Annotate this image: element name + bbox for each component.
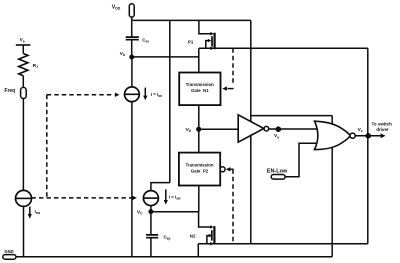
pin Freq oval [21,87,27,98]
label arrow I=Ion [143,88,162,101]
svg-text:To switch: To switch [372,121,393,126]
wire Va to resistor [22,45,24,54]
capacitor C_sp [146,235,158,238]
wire P2 bottom to Vc line [198,186,200,212]
wire P1 drain line [199,47,368,49]
svg-text:GND: GND [4,249,13,254]
wire Vo [269,128,317,130]
wire Freq down to I_sw mirror [22,99,24,191]
wire EN-Low to NOR input [285,143,318,177]
svg-text:P1: P1 [188,39,194,44]
wire V_D to inverter [199,128,239,130]
wire rail to C_se [131,20,133,37]
transmission gate P2 box [179,153,220,186]
capacitor C_se [126,37,139,40]
pin EN-Low oval [271,175,285,180]
svg-text:VDD: VDD [112,4,121,10]
bubble inverter output [264,126,269,131]
svg-text:Vo: Vo [274,133,279,139]
wire Vb horizontal [132,56,199,58]
svg-text:Va: Va [20,37,25,43]
arrow to switch driver [381,133,386,138]
svg-text:Vx: Vx [358,127,363,133]
svg-text:Csp: Csp [164,235,171,241]
wire I_on source down to GND rail [131,102,133,257]
current source I_sw mirror circle [16,190,32,206]
wire rail down at x=169.8 [169,20,171,182]
wire I_sw mirror to GND rail [23,206,25,256]
wire branch to NOR top [251,115,332,117]
wire C_se to Vb [131,40,133,57]
node Vx junction dot [365,133,371,139]
wire P1 drain down to N1 input [198,48,200,72]
svg-text:I = Ion: I = Ion [151,92,162,98]
svg-text:N2: N2 [190,234,196,239]
transmission gate N1 box [179,73,220,106]
wire right vertical Vx column [367,48,369,243]
svg-text:I = Isw: I = Isw [169,194,181,200]
node V_D junction dot [196,127,201,132]
dashed control from bottom line to P2 bubble [226,167,234,244]
transistor N2 [199,212,215,246]
wire rail x=250.8 from VDD rail down [250,20,252,243]
label arrow I_sw [28,207,41,219]
svg-text:RJ: RJ [33,63,38,69]
current source I=Isw circle [143,191,158,206]
wire Vb column down to current source I_on [131,57,133,87]
dashed feedback to I_on [47,93,120,97]
node Vc junction dot [148,209,153,214]
wire resistor to Freq pin [22,76,24,88]
svg-text:Gate P2: Gate P2 [191,168,209,173]
wire GND rail [16,256,332,258]
gate NOR U2 [315,121,351,149]
resistor RJ zigzag [19,54,28,76]
svg-text:Cse: Cse [142,38,149,44]
dashed feedback to I_sw2 [32,196,137,200]
wire N2 source to GND rail [197,244,199,257]
current source I=Ion bar [125,93,140,95]
svg-text:driver: driver [376,127,389,132]
node Vb junction dot [129,55,134,60]
svg-text:Transmission: Transmission [185,162,213,167]
wire I_sw2 to Vc node [150,206,152,212]
wire VDD pin to rail [131,17,133,20]
wire C_sp to GND rail [150,238,152,257]
inverter U1 [238,115,264,142]
bubble P2 control [220,167,225,172]
transistor P1 [199,20,215,50]
svg-text:VC: VC [137,209,143,215]
wire Vc horizontal [151,211,199,213]
svg-text:Vb: Vb [120,51,125,57]
label arrow I=Isw [164,189,181,204]
wire NOR top entry and bottom to GND [331,116,333,257]
current source I=Ion circle [124,87,139,102]
wire top VDD rail [132,19,251,21]
dashed control from P1 drain to N1 [222,48,233,91]
svg-text:VD: VD [186,127,192,133]
wire Vx output [355,135,381,137]
power pin VDD symbol [129,4,134,17]
current source I_sw mirror bar [16,197,32,199]
dashed feedback vertical left [46,95,48,198]
svg-text:Gate N1: Gate N1 [191,88,209,93]
ground pin GND symbol [3,255,16,260]
svg-text:Freq: Freq [4,88,15,94]
svg-text:Isw: Isw [35,209,41,215]
node Vo junction dot [276,126,282,132]
wire jog to I_sw2 source [151,183,170,191]
bubble NOR output [350,133,355,138]
current source I=Isw bar [143,197,158,199]
svg-text:Transmission: Transmission [186,82,214,87]
wire N1 to P2 [198,105,200,153]
wire bottom line N2 source [198,243,367,245]
node Va bar [16,44,31,46]
wire Vc down to C_sp [150,212,152,235]
